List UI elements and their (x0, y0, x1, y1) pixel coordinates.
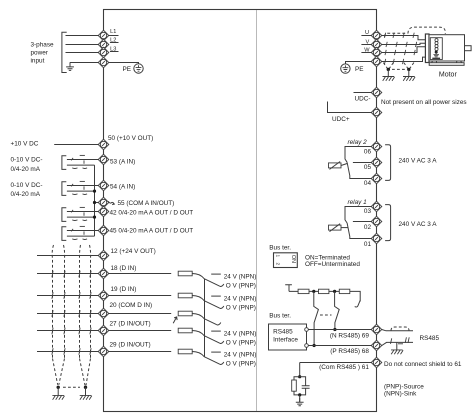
junction dot 55 common (93, 201, 96, 204)
terminal 27 (98, 325, 109, 336)
svg-text:0-10 V DC-: 0-10 V DC- (11, 182, 43, 189)
motor terminals circles (435, 39, 438, 51)
svg-text:2: 2 (275, 263, 281, 266)
label relay 1 (348, 199, 368, 206)
RS485 cable shield dashed arc (391, 327, 409, 331)
label (P RS485) 68 (330, 348, 369, 355)
chassis ground shield right (80, 395, 92, 399)
junction dot 42 common (93, 216, 96, 219)
ground RC (296, 398, 304, 406)
termination resistor 1 (298, 289, 309, 293)
terminal V (371, 39, 382, 50)
svg-text:55 (COM A IN/OUT): 55 (COM A IN/OUT) (118, 200, 175, 207)
svg-text:PE: PE (355, 66, 364, 73)
arrow D IN/OUT 27 (173, 317, 177, 323)
3-phase input bracket (62, 32, 67, 72)
RC ground stub (299, 395, 301, 402)
relay 2 bracket (385, 145, 391, 181)
relay 1 bracket (385, 205, 391, 241)
DIP switch bus termination (274, 253, 298, 268)
chassis ground motor cable left (383, 77, 395, 81)
label PNP Source (384, 384, 424, 391)
terminal 61 (371, 357, 382, 368)
terminal 69 (371, 324, 382, 335)
termination switch dashed link (320, 314, 332, 316)
wire terminal 50 (54, 144, 99, 146)
label (N RS485) 69 (330, 333, 370, 340)
terminal L2 (98, 39, 109, 50)
svg-text:Bus ter.: Bus ter. (269, 244, 291, 251)
terminal 20 (98, 308, 109, 319)
terminal UDC+ (371, 107, 382, 118)
chassis ground motor cable right (403, 77, 415, 81)
label 53 (A IN) (110, 158, 135, 165)
cable shield dashed lines left (52, 245, 90, 385)
wire PE to earth circle (109, 63, 139, 64)
terminal 54 (98, 180, 109, 191)
label 03 (364, 208, 372, 215)
svg-text:OFF=Unterminated: OFF=Unterminated (305, 261, 360, 268)
label Motor (439, 71, 458, 78)
terminal L1 (98, 30, 109, 41)
relay 1 contact (345, 207, 371, 239)
label Bus ter. lower (269, 313, 291, 320)
terminal 53 (98, 154, 109, 165)
cable shield dashed small (385, 33, 408, 37)
resistor input 18 (178, 271, 192, 276)
wire terminal 18 (37, 273, 100, 275)
ground input PE (66, 63, 74, 71)
label L2 with underline (110, 37, 119, 43)
wire N RS485 (308, 329, 371, 331)
svg-text:power: power (31, 49, 49, 56)
wire PE right to earth circle (346, 62, 372, 64)
svg-text:0-10 V DC-: 0-10 V DC- (11, 157, 43, 164)
switch NPN/PNP 29 (192, 351, 256, 367)
svg-text:UDC-: UDC- (355, 95, 371, 102)
label U with stub (361, 30, 371, 36)
label 01 (364, 241, 372, 248)
load analog output 45 (62, 226, 98, 240)
svg-text:20 (COM D IN): 20 (COM D IN) (110, 302, 153, 309)
svg-text:Motor: Motor (439, 71, 458, 78)
shield dashed link (63, 386, 80, 388)
switch NPN/PNP 27 (192, 330, 256, 346)
label RS485 external (420, 335, 440, 342)
wire UDC- stub (354, 92, 372, 94)
arrow at terminal 55 (108, 201, 114, 204)
wire terminal 19 (37, 295, 100, 297)
shield clamp ground stubs (388, 69, 409, 76)
terminal 05 (371, 157, 382, 168)
svg-text:PE: PE (122, 66, 131, 73)
power/control divider line (256, 10, 258, 411)
label 54 (A IN) (110, 183, 135, 190)
pin circle N (305, 328, 309, 332)
svg-text:19 (D IN): 19 (D IN) (111, 286, 137, 293)
wire RS485 N external (382, 330, 413, 331)
wire PE to motor (382, 57, 426, 61)
svg-text:UDC+: UDC+ (332, 116, 350, 123)
shield clamp dashes left (383, 63, 393, 69)
junction dot 54 common (93, 190, 96, 193)
wire W to motor (382, 47, 426, 53)
wire terminal 12 (37, 255, 100, 257)
svg-text:0/4-20 mA: 0/4-20 mA (11, 166, 41, 173)
resistor input 19 (178, 293, 192, 298)
label 18 (D IN) (111, 265, 137, 272)
terminal 03 (371, 201, 382, 212)
chassis ground shield left (52, 395, 64, 399)
shield junction dot left (57, 386, 60, 389)
label 0-10 V DC / 0-4-20 mA lower (11, 182, 43, 198)
motor body (429, 35, 465, 61)
termination node dot 1 (312, 290, 315, 293)
svg-text:(P RS485) 68: (P RS485) 68 (330, 348, 369, 355)
terminal PE left (98, 57, 109, 68)
shield clamp dashes right (404, 63, 414, 69)
svg-text:50 (+10 V OUT): 50 (+10 V OUT) (108, 135, 153, 142)
svg-text:03: 03 (364, 208, 372, 215)
svg-text:27 (D IN/OUT): 27 (D IN/OUT) (110, 320, 151, 327)
label 29 (D IN/OUT) (110, 341, 151, 348)
wire 20 internal (109, 313, 171, 315)
relay 2 contact (345, 147, 371, 179)
wire terminal 29 (37, 351, 100, 353)
common bus vertical wire left (94, 165, 96, 236)
termination switch 1 (314, 291, 319, 345)
motor base (429, 61, 464, 65)
resistor input 20 (178, 311, 192, 316)
wire L3 input (66, 52, 100, 54)
shield junction dot right (84, 386, 87, 389)
RC filter wire down (299, 363, 301, 377)
svg-text:input: input (31, 58, 45, 65)
wire L2 input (66, 44, 100, 46)
shield clamp dot left (387, 68, 390, 71)
relay 2 coil (329, 162, 348, 170)
label 240 V AC 3 A relay 1 (399, 221, 438, 228)
svg-text:RS485: RS485 (273, 329, 293, 336)
svg-text:29 (D IN/OUT): 29 (D IN/OUT) (110, 341, 151, 348)
motor cable ticks (385, 33, 417, 64)
label 42 output (110, 209, 194, 216)
svg-text:(N RS485) 69: (N RS485) 69 (330, 333, 370, 340)
wire 29 internal (109, 351, 171, 353)
resistor RC (292, 380, 297, 391)
svg-text:(NPN)-Sink: (NPN)-Sink (384, 391, 417, 398)
motor shaft (465, 46, 472, 51)
svg-text:ON: ON (290, 255, 296, 263)
svg-text:42 0/4-20 mA A OUT / D OUT: 42 0/4-20 mA A OUT / D OUT (110, 209, 194, 216)
terminal PE right (371, 56, 382, 67)
drive enclosure box (104, 10, 377, 412)
svg-text:04: 04 (364, 180, 372, 187)
terminal 55 (98, 197, 109, 208)
svg-text:06: 06 (364, 149, 372, 156)
terminal 45 (98, 225, 109, 236)
svg-text:54 (A IN): 54 (A IN) (110, 183, 135, 190)
relay 1 coil (329, 224, 349, 232)
termination stub cap (285, 285, 292, 292)
terminal 42 (98, 206, 109, 217)
terminal 50 (98, 139, 109, 150)
terminal 01 (371, 233, 382, 244)
terminal 06 (371, 141, 382, 152)
label L1 (110, 29, 116, 35)
svg-text:1: 1 (275, 255, 281, 258)
label 45 output (110, 228, 194, 235)
wire V to motor (382, 43, 426, 44)
wire terminal 55 common (95, 202, 100, 204)
terminal 68 (371, 340, 382, 351)
label ON=Terminated (305, 254, 350, 261)
label 55 (COM A IN/OUT) (118, 200, 175, 207)
svg-text:Do not connect shield to 61: Do not connect shield to 61 (384, 361, 462, 368)
terminal 02 (371, 216, 382, 227)
wire terminal 20 (37, 313, 100, 315)
svg-text:0/4-20 mA: 0/4-20 mA (11, 191, 41, 198)
wire 19 internal (109, 295, 171, 297)
label 240 V AC 3 A relay 2 (399, 157, 438, 164)
wire L1 input (66, 35, 100, 37)
label +10 V DC (11, 141, 39, 148)
svg-text:relay 2: relay 2 (348, 139, 368, 146)
label 05 (364, 164, 372, 171)
termination node dot 2 (333, 290, 336, 293)
shield clamp dot right (407, 68, 410, 71)
label UDC+ (332, 116, 350, 123)
svg-text:3-phase: 3-phase (31, 41, 55, 48)
RC junction dot top (298, 375, 301, 378)
terminal L3 (98, 47, 109, 58)
label 50 (+10 V OUT) (108, 135, 153, 142)
terminal 12 (98, 250, 109, 261)
label PE right (355, 66, 364, 73)
terminal 04 (371, 173, 382, 184)
svg-text:L1: L1 (110, 29, 116, 35)
svg-text:Interface: Interface (273, 337, 298, 344)
wire 27 internal (109, 330, 171, 332)
RS485 cable ticks (391, 337, 410, 344)
shield clamp dashed link (392, 68, 405, 70)
wire terminal 27 (37, 330, 100, 332)
switch NPN/PNP 19 (192, 295, 256, 311)
earth symbol PE left (134, 64, 143, 73)
terminal 19 (98, 290, 109, 301)
svg-text:53 (A IN): 53 (A IN) (110, 158, 135, 165)
termination switch 2 (335, 291, 340, 329)
terminal W (371, 47, 382, 58)
label 02 (364, 224, 372, 231)
svg-text:relay 1: relay 1 (348, 199, 368, 206)
potentiometer analog input 54 (62, 181, 98, 195)
label OFF=Unterminated (305, 261, 360, 268)
label V with stub (361, 39, 371, 45)
svg-text:RS485: RS485 (420, 335, 440, 342)
wire UDC+ stub (328, 102, 372, 113)
svg-text:18 (D IN): 18 (D IN) (111, 265, 137, 272)
RC junction dot bottom (298, 393, 301, 396)
wire P RS485 (308, 345, 371, 347)
terminal U (371, 30, 382, 41)
motor ground dot (435, 51, 438, 54)
terminal 29 (98, 346, 109, 357)
svg-text:02: 02 (364, 224, 372, 231)
3-phase power input label (31, 41, 55, 64)
wire 53 to terminal (98, 159, 100, 161)
RS485 shield ground stub (396, 342, 398, 349)
resistor input 27 (178, 328, 192, 333)
svg-text:Bus ter.: Bus ter. (269, 313, 291, 320)
label W with stub (361, 47, 371, 53)
wire PE input (70, 62, 100, 64)
load analog output 42 (62, 207, 98, 221)
shield tick marks on wires (52, 271, 91, 355)
label 06 (364, 149, 372, 156)
resistor input 29 (178, 349, 192, 354)
label 0-10 V DC / 0-4-20 mA upper (11, 157, 43, 173)
potentiometer analog input 53 (62, 155, 98, 169)
label 19 (D IN) (111, 286, 137, 293)
termination wire (289, 291, 360, 301)
svg-text:45 0/4-20 mA A OUT / D OUT: 45 0/4-20 mA A OUT / D OUT (110, 228, 194, 235)
svg-text:240 V AC 3 A: 240 V AC 3 A (399, 157, 438, 164)
label L3 with underline (110, 46, 119, 52)
wire U to motor (382, 36, 426, 40)
switch common 20 (192, 314, 221, 325)
svg-text:12 (+24 V OUT): 12 (+24 V OUT) (111, 248, 156, 255)
termination resistor 3 (339, 289, 350, 293)
wire L1 stub (107, 35, 119, 37)
label UDC- (355, 95, 371, 102)
capacitor RC (302, 386, 310, 389)
label 27 (D IN/OUT) (110, 320, 151, 327)
svg-text:01: 01 (364, 241, 372, 248)
label 04 (364, 180, 372, 187)
termination switch right hook (355, 300, 361, 307)
svg-text:(PNP)-Source: (PNP)-Source (384, 384, 424, 391)
terminal 18 (98, 268, 109, 279)
shield ground stubs (58, 387, 85, 395)
terminal UDC- (371, 87, 382, 98)
wire 18 internal (109, 273, 171, 275)
termination resistor 2 (319, 289, 329, 293)
label Bus ter. upper (269, 244, 291, 251)
svg-text:Not present on all power sizes: Not present on all power sizes (381, 99, 467, 106)
motor terminal strip (425, 34, 429, 63)
digital common vertical wire (204, 279, 206, 357)
svg-text:05: 05 (364, 164, 372, 171)
svg-text:+10 V DC: +10 V DC (11, 141, 39, 148)
label relay 2 (348, 139, 368, 146)
label PE left (122, 66, 131, 73)
wire RS485 P external (382, 342, 413, 345)
junction dot P line (313, 344, 316, 347)
label 12 (+24 V OUT) (111, 248, 156, 255)
earth symbol PE right (341, 64, 350, 73)
motor internal ground (432, 52, 440, 58)
svg-text:(Com RS485 ) 61: (Com RS485 ) 61 (319, 364, 369, 371)
pin circle P (305, 344, 309, 348)
junction dot N line (333, 328, 336, 331)
label Do not connect shield to 61 (384, 361, 462, 368)
RC resistor branch (294, 377, 300, 395)
label Not present on all power sizes (381, 99, 467, 106)
motor terminal box (430, 38, 442, 60)
wire Com RS485 (300, 362, 372, 364)
cable shield dashed large (408, 27, 445, 34)
label 20 (COM D IN) (110, 302, 153, 309)
RS485 interface box (269, 324, 307, 350)
chassis ground RS485 shield (391, 350, 403, 354)
svg-text:240 V AC 3 A: 240 V AC 3 A (399, 221, 438, 228)
label NPN Sink (384, 391, 417, 398)
RC capacitor branch (300, 377, 306, 395)
switch NPN/PNP 18 (192, 273, 256, 289)
label (Com RS485) 61 (319, 364, 369, 371)
